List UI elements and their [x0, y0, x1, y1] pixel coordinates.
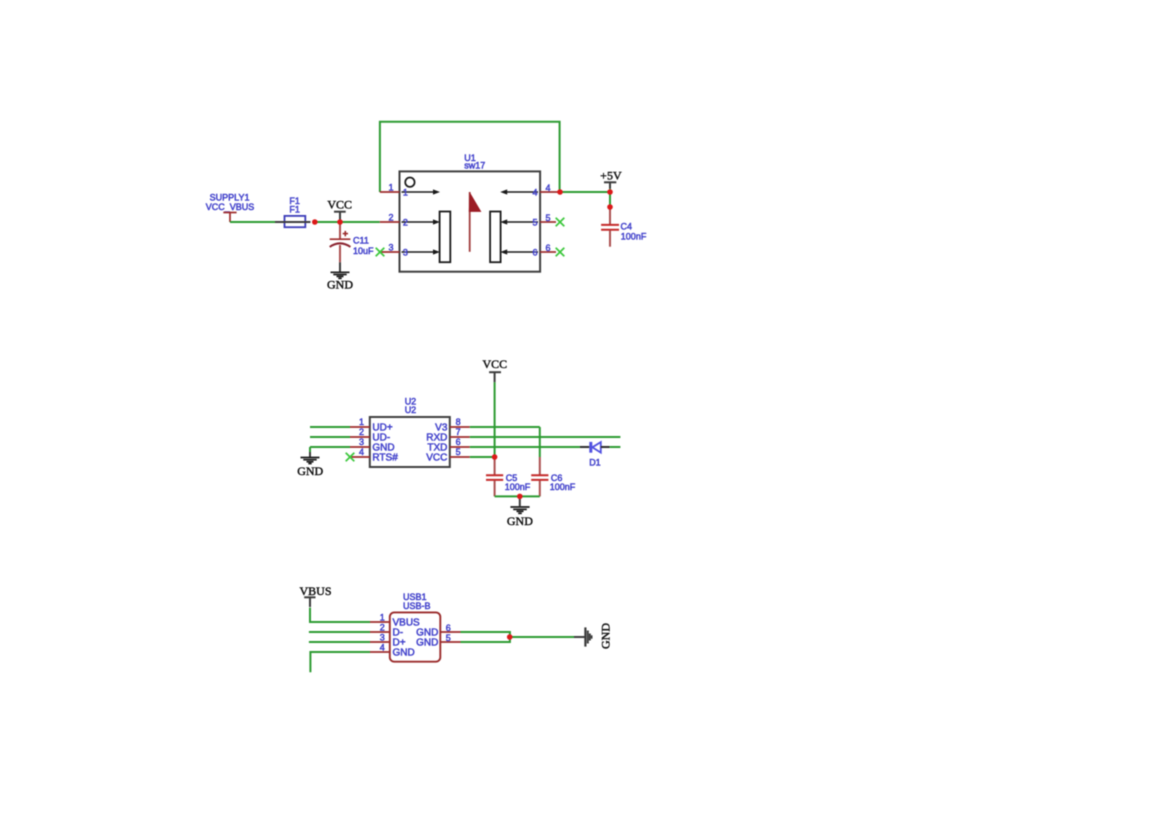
- power flag VCC: [327, 198, 352, 222]
- capacitor C5: [486, 457, 531, 496]
- svg-text:2: 2: [403, 217, 408, 227]
- capacitor C11: [330, 222, 374, 262]
- junction: [517, 494, 523, 500]
- junction: [492, 454, 498, 460]
- svg-text:SUPPLY1: SUPPLY1: [210, 193, 250, 203]
- pin 8 V3: [450, 426, 470, 428]
- no-connect X pin 6: [556, 248, 565, 257]
- svg-text:2: 2: [380, 623, 385, 633]
- svg-text:4: 4: [532, 188, 537, 198]
- junction: [312, 219, 318, 225]
- svg-text:USB-B: USB-B: [403, 601, 431, 611]
- pin 6 TXD: [450, 446, 470, 448]
- svg-text:1: 1: [388, 183, 393, 193]
- svg-text:VBUS: VBUS: [299, 584, 331, 598]
- svg-text:VCC: VCC: [327, 198, 352, 212]
- wire: [310, 608, 370, 622]
- svg-text:1: 1: [380, 613, 385, 623]
- junction: [607, 189, 613, 195]
- svg-text:VCC: VCC: [482, 357, 507, 371]
- wire: [310, 446, 350, 448]
- no-connect X pin 3: [376, 248, 385, 257]
- pin 2: [380, 221, 400, 223]
- svg-text:4: 4: [546, 183, 551, 193]
- wire: [309, 447, 311, 452]
- wire: [610, 446, 621, 448]
- svg-text:GND: GND: [507, 514, 533, 528]
- no-connect X pin 5: [556, 218, 565, 227]
- wire: [315, 221, 380, 223]
- wire: [470, 436, 621, 438]
- junction: [337, 219, 343, 225]
- pin 6 GND: [441, 631, 461, 633]
- wire: [310, 426, 350, 428]
- wire: [470, 446, 580, 448]
- wire: [539, 427, 541, 457]
- svg-text:+5V: +5V: [600, 169, 622, 183]
- junction: [607, 204, 613, 210]
- svg-text:C11: C11: [353, 235, 369, 245]
- pin 3 GND: [350, 446, 370, 448]
- power flag +5V: [600, 169, 622, 193]
- svg-text:U2: U2: [405, 405, 417, 415]
- svg-text:RTS#: RTS#: [372, 453, 398, 464]
- wire: [380, 122, 560, 192]
- pin 4 RTS#: [350, 456, 370, 458]
- svg-text:8: 8: [456, 417, 461, 427]
- wire: [495, 495, 540, 497]
- svg-text:7: 7: [456, 427, 461, 437]
- wire: [494, 382, 496, 457]
- diode D1: [580, 442, 610, 468]
- pin 5: [540, 221, 556, 223]
- no-connect X pin 4 (RTS#): [346, 453, 355, 462]
- wire: [461, 632, 510, 642]
- wire: [309, 631, 370, 633]
- svg-text:F1: F1: [289, 204, 300, 214]
- svg-text:2: 2: [359, 427, 364, 437]
- pin 1: [380, 191, 400, 193]
- svg-text:VCC_VBUS: VCC_VBUS: [206, 202, 255, 212]
- svg-text:3: 3: [380, 633, 385, 643]
- svg-text:C4: C4: [621, 222, 633, 232]
- svg-text:6: 6: [456, 437, 461, 447]
- pin 7 RXD: [450, 436, 470, 438]
- svg-text:GND: GND: [598, 623, 612, 649]
- svg-text:4: 4: [359, 447, 364, 457]
- pin 2 D-: [370, 631, 390, 633]
- svg-text:3: 3: [388, 243, 393, 253]
- pin 5 VCC: [450, 456, 470, 458]
- terminal SUPPLY1: [206, 193, 255, 222]
- capacitor C4: [601, 207, 647, 247]
- wire: [470, 426, 540, 428]
- svg-text:5: 5: [532, 218, 537, 228]
- pin 1 VBUS: [370, 621, 390, 623]
- pin 1 UD+: [350, 426, 370, 428]
- wire: [310, 652, 370, 672]
- ground: [574, 623, 612, 649]
- wire: [310, 436, 350, 438]
- svg-text:10uF: 10uF: [353, 246, 374, 256]
- svg-text:100nF: 100nF: [550, 482, 576, 492]
- svg-text:6: 6: [532, 248, 537, 258]
- wire: [309, 641, 370, 643]
- svg-text:5: 5: [546, 213, 551, 223]
- svg-text:100nF: 100nF: [621, 231, 647, 241]
- pin 4 GND: [370, 651, 390, 653]
- junction: [557, 189, 563, 195]
- pin 6: [540, 251, 556, 253]
- svg-text:GND: GND: [393, 648, 415, 659]
- junction: [507, 634, 513, 640]
- power flag VBUS: [299, 584, 331, 607]
- ground: [507, 496, 533, 528]
- pin 3 D+: [370, 641, 390, 643]
- ground: [327, 262, 353, 291]
- pin 3: [381, 251, 400, 253]
- svg-text:6: 6: [546, 243, 551, 253]
- pin 2 UD-: [350, 436, 370, 438]
- fuse F1: [275, 196, 311, 227]
- svg-text:4: 4: [380, 643, 385, 653]
- ground: [297, 452, 323, 478]
- connector USB1: [370, 592, 461, 662]
- svg-text:GND: GND: [327, 278, 353, 292]
- svg-text:6: 6: [446, 623, 451, 633]
- svg-text:1: 1: [359, 417, 364, 427]
- svg-text:GND: GND: [416, 638, 438, 649]
- svg-text:GND: GND: [297, 464, 323, 478]
- svg-text:sw17: sw17: [464, 161, 485, 171]
- svg-text:2: 2: [388, 213, 393, 223]
- pin 5 GND: [441, 641, 461, 643]
- pin 4: [540, 191, 560, 193]
- wire: [510, 636, 574, 638]
- power flag VCC: [482, 357, 507, 382]
- svg-text:3: 3: [403, 247, 408, 257]
- svg-text:100nF: 100nF: [505, 482, 531, 492]
- wire: [609, 192, 611, 207]
- svg-text:5: 5: [446, 633, 451, 643]
- svg-text:3: 3: [359, 437, 364, 447]
- wire: [560, 191, 610, 193]
- wire: [230, 221, 275, 223]
- svg-text:1: 1: [403, 187, 408, 197]
- capacitor C6: [531, 457, 576, 496]
- wire: [470, 456, 495, 458]
- IC U1: [380, 153, 560, 272]
- svg-text:5: 5: [456, 447, 461, 457]
- svg-text:D1: D1: [589, 458, 601, 468]
- IC U2: [350, 396, 470, 467]
- svg-text:VCC: VCC: [426, 453, 447, 464]
